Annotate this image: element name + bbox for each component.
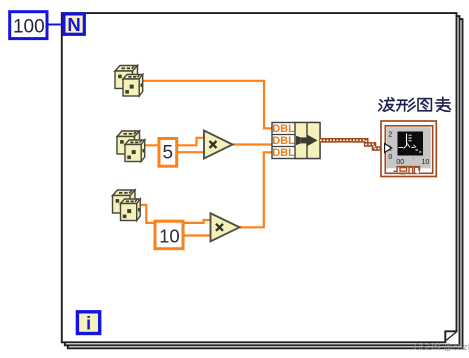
inner border [385,126,432,174]
svg-text:00: 00 [396,159,404,166]
svg-text:2: 2 [388,132,392,139]
for-loop main frame [62,13,457,342]
constant 5 [159,139,177,167]
svg-text:5: 5 [163,143,174,164]
multiply node U3 [211,213,240,241]
wire w3b: constant10 to multiply3 bottom input [183,234,210,236]
svg-text:': ' [413,158,414,164]
iteration terminal i [77,312,99,334]
wire w2a: dice2 to multiply2 top input [145,138,204,146]
wire w2b: constant5 to multiply2 bottom input [177,151,204,153]
wire w3c: multiply3 output to merge DBL3 [240,152,273,227]
svg-text:CSDN @chzhyg: CSDN @chzhyg [414,342,469,352]
input triangle [385,144,392,153]
wire w1: dice1 to merge DBL1 [142,81,272,129]
wire 100 to N [46,24,64,26]
random number dice 2 [117,131,145,162]
char 波 [379,98,394,112]
for-loop back plate 3 [68,19,463,348]
char 图 [418,99,431,111]
merge arrow [296,135,318,146]
wire w2c: multiply2 output to merge DBL2 [233,143,273,145]
char 表 [436,97,451,111]
label 波形图表 [379,97,451,111]
svg-text:DBL: DBL [272,123,295,135]
svg-text:10: 10 [422,159,430,166]
page curl crease (bottom-right corner) [446,332,456,340]
random number dice 3 [113,190,141,221]
svg-text:100: 100 [13,16,45,37]
waveform chart terminal [381,121,436,177]
mini plot [398,132,424,156]
wire w3a: dice3 to multiply3 top input [140,205,211,223]
char 形 [397,98,416,111]
random number dice 1 [115,66,143,97]
merge signals node [272,123,320,160]
svg-text:i: i [86,314,91,334]
constant 10 [155,221,183,249]
constant 100 [10,12,47,39]
svg-text:N: N [67,14,80,35]
outer border [381,121,436,177]
svg-text:DBL: DBL [272,147,295,159]
for-loop back plate 2 [65,16,460,345]
svg-text:10: 10 [159,225,180,246]
gray face [387,127,432,168]
multiply node U2 [204,131,233,159]
svg-text:0: 0 [388,154,392,161]
svg-text:DBL: DBL [272,135,295,147]
svg-text:1: 1 [388,145,392,152]
loop count terminal N [64,14,84,35]
scale legend plate [394,167,420,175]
dynamic data wire to chart [320,140,385,148]
